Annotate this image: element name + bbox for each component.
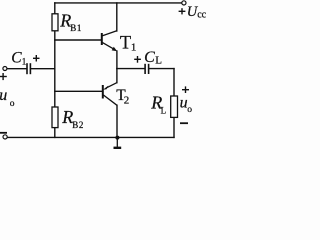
label input minus (0, 132, 7, 134)
resistor RB1 (52, 14, 58, 31)
node bottom-left terminal (3, 135, 7, 139)
ground (114, 136, 122, 148)
svg-text:L: L (161, 106, 167, 116)
svg-text:B2: B2 (72, 120, 84, 130)
node input terminal (3, 67, 7, 71)
wire RB2 bottom (54, 128, 56, 138)
label CL (144, 49, 162, 67)
wire C1 to divider (31, 68, 55, 70)
wire output tap (117, 68, 145, 70)
wire T2 collector vertical (116, 105, 118, 137)
capacitor CL (145, 64, 149, 74)
label output plus (182, 86, 189, 93)
wire bottom rail (7, 136, 174, 138)
svg-text:2: 2 (124, 94, 130, 106)
label plus after C1 (33, 55, 40, 62)
svg-text:o: o (187, 105, 192, 115)
wire T1 collector vertical (116, 3, 118, 31)
label output minus (180, 122, 188, 124)
label input plus (0, 73, 7, 80)
wire input to C1 (7, 68, 26, 70)
svg-text:u: u (0, 87, 7, 104)
transistor T2 (103, 83, 117, 106)
wire top rail (55, 2, 182, 4)
svg-text:L: L (155, 55, 162, 67)
svg-text:C: C (144, 49, 155, 66)
resistor RB2 (52, 107, 58, 128)
wire base divider vertical (54, 30, 56, 107)
label RL (150, 93, 166, 116)
label output u (180, 95, 193, 115)
label +Ucc (179, 4, 207, 21)
capacitor C1 (27, 63, 30, 74)
node Ucc terminal (182, 1, 186, 5)
svg-text:1: 1 (22, 57, 27, 67)
svg-text:T: T (120, 33, 131, 53)
label T1 (120, 33, 136, 53)
svg-text:C: C (11, 49, 22, 66)
svg-text:1: 1 (131, 42, 137, 54)
label RB2 (61, 107, 84, 130)
label input u (0, 87, 15, 109)
label RB1 (59, 11, 82, 34)
svg-text:o: o (10, 99, 15, 109)
label T2 (116, 87, 129, 106)
wire RL bottom (173, 117, 175, 137)
wire T2 base (55, 90, 103, 92)
label plus before CL (134, 56, 141, 63)
resistor RL (171, 96, 178, 117)
wire emitter node vertical (116, 51, 118, 83)
label C1 (11, 49, 26, 66)
wire CL to corner (149, 68, 174, 70)
svg-text:cc: cc (197, 9, 206, 20)
transistor T1 (102, 31, 117, 51)
wire RL top drop (173, 69, 175, 96)
svg-text:B1: B1 (70, 23, 82, 33)
wire RB1 top drop (54, 3, 56, 14)
wire T1 base (55, 39, 102, 41)
